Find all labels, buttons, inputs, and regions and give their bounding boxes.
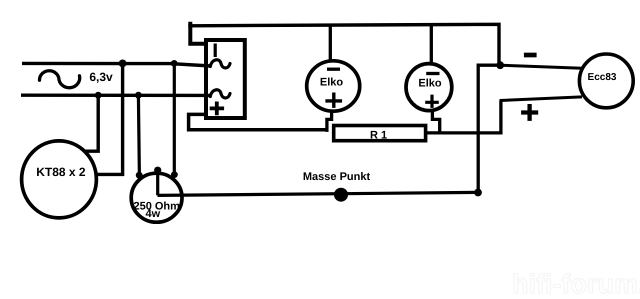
C2 minus mark	[426, 72, 439, 75]
svg-text:R 1: R 1	[370, 129, 387, 141]
junction dot bottom wire 1	[95, 92, 102, 99]
resistor center tap wire	[156, 170, 159, 195]
heater resistor feed wire 2	[173, 63, 176, 176]
svg-text:KT88 x 2: KT88 x 2	[36, 165, 86, 179]
rectifier bridge B1	[206, 40, 245, 118]
ground riser wire	[478, 65, 500, 192]
tube KT88	[22, 141, 97, 218]
AC sine symbol	[39, 71, 79, 88]
bridge AC terminal 1	[210, 60, 230, 68]
svg-text:Masse Punkt: Masse Punkt	[303, 171, 371, 183]
bridge minus mark	[214, 44, 217, 58]
KT88 heater wire 1	[84, 95, 98, 151]
masse wire	[158, 192, 478, 195]
KT88 heater wire 2	[96, 63, 123, 174]
junction dot 250 top	[154, 167, 161, 174]
masse punkt dot	[334, 188, 348, 202]
svg-text:6,3v: 6,3v	[89, 70, 113, 84]
masse right junction dot	[474, 189, 482, 197]
junction dot bottom wire 2	[135, 92, 142, 99]
label plus	[521, 104, 538, 121]
bridge DC plus lead	[189, 114, 328, 129]
AC wire top	[22, 63, 211, 66]
C2 plus mark	[425, 95, 439, 108]
tube Ecc83	[579, 54, 633, 108]
resistor 250 Ohm	[131, 173, 182, 222]
junction dot 250 right	[171, 171, 178, 178]
bridge DC minus lead	[190, 22, 205, 44]
C1 minus mark	[327, 68, 340, 71]
capacitor C2	[406, 64, 452, 111]
svg-text:4w: 4w	[145, 208, 160, 220]
heater resistor feed wire 1	[138, 95, 139, 176]
svg-text:hifi-forum.de: hifi-forum.de	[512, 269, 640, 299]
label minus	[524, 53, 537, 58]
minus node junction dot	[496, 61, 504, 69]
capacitor C2 top lead	[430, 25, 433, 64]
resistor R1	[334, 126, 426, 141]
AC wire bottom	[21, 93, 211, 97]
junction dot top wire 2	[171, 60, 178, 67]
bridge AC terminal 2	[210, 90, 230, 98]
capacitor C1	[307, 61, 360, 111]
wire R1 to plus node	[427, 100, 501, 132]
bridge plus mark	[210, 102, 224, 116]
junction dot 250 left	[136, 172, 143, 179]
svg-text:Ecc83: Ecc83	[588, 72, 617, 83]
junction dot top wire 1	[119, 60, 127, 68]
svg-text:Elko: Elko	[320, 77, 344, 89]
plus wire to Ecc83	[500, 97, 582, 101]
capacitor C1 top lead	[329, 25, 332, 61]
top rail wire	[188, 24, 499, 65]
svg-text:Elko: Elko	[418, 77, 442, 89]
C1 plus mark	[325, 93, 342, 108]
C2 bottom lead	[432, 112, 439, 133]
minus wire to Ecc83	[500, 65, 582, 68]
C1 bottom lead	[327, 112, 332, 132]
